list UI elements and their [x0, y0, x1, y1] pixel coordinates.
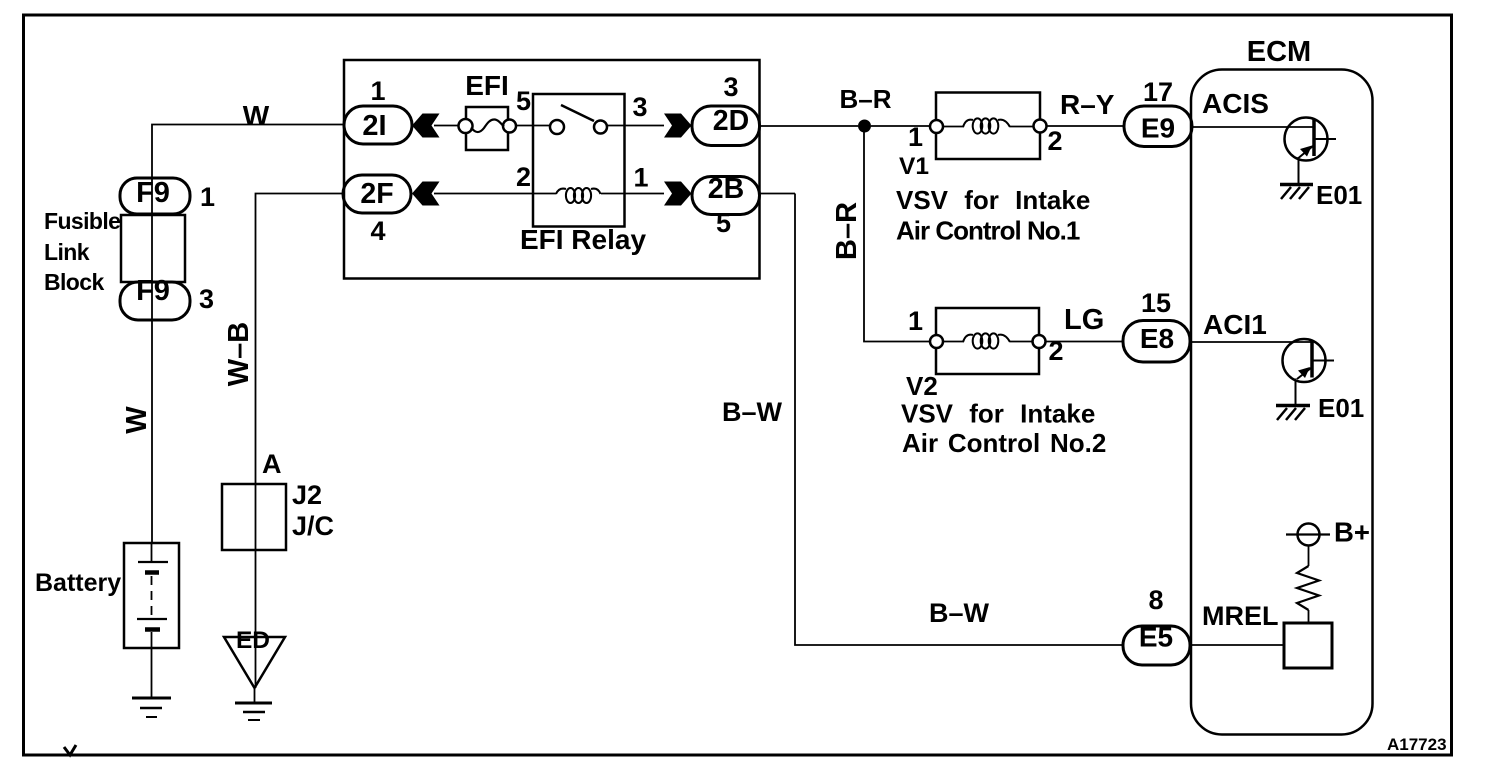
label VSV for Intake Air Control No.1 — [896, 185, 1090, 246]
svg-text:Battery: Battery — [35, 569, 121, 597]
ECM box — [1191, 70, 1373, 735]
resistor (MREL pull-up) — [1297, 566, 1319, 610]
wire 2D to junction — [760, 125, 859, 127]
wire E9 to transistor base — [1190, 126, 1313, 128]
EFI relay inner box — [533, 94, 625, 227]
svg-text:A17723: A17723 — [1387, 735, 1447, 754]
wire ED to ground — [254, 688, 256, 703]
connector 2F — [343, 175, 411, 213]
label VSV for Intake Air Control No.2 — [901, 399, 1106, 459]
svg-text:3: 3 — [723, 72, 738, 102]
svg-text:E01: E01 — [1318, 393, 1364, 423]
label J2 J/C — [292, 480, 334, 541]
ground point ED (triangle) — [224, 627, 285, 688]
svg-text:W: W — [243, 100, 270, 131]
connector F9 pin 3 — [120, 275, 190, 320]
connector F9 pin 1 — [120, 177, 190, 214]
wire 2F arrow to relay coil — [434, 193, 556, 195]
svg-text:J2: J2 — [292, 480, 322, 510]
fusible link block body — [121, 215, 185, 282]
svg-text:1: 1 — [908, 306, 923, 336]
wire relay contact to 2D — [607, 125, 664, 127]
wire junction to V1 — [871, 125, 930, 127]
svg-text:E9: E9 — [1141, 113, 1175, 144]
ground E01 (Q2) — [1276, 406, 1310, 421]
svg-text:VSV for Intake: VSV for Intake — [896, 185, 1090, 215]
arrow into 2F — [412, 182, 440, 206]
wire B-W vertical and bottom run to E5 — [795, 194, 1123, 646]
svg-text:Air Control No.1: Air Control No.1 — [896, 216, 1080, 246]
wire 2B to B-W vertical — [760, 193, 796, 195]
relay coil — [556, 188, 601, 203]
transistor Q2 (ACI1 driver) — [1283, 339, 1335, 405]
svg-text:1: 1 — [200, 182, 215, 212]
svg-text:W–B: W–B — [223, 322, 255, 386]
svg-text:W: W — [121, 406, 153, 434]
svg-text:E8: E8 — [1140, 323, 1174, 354]
connector 2I — [344, 106, 412, 144]
svg-text:LG: LG — [1064, 304, 1104, 336]
arrow into 2B — [664, 182, 692, 206]
junction connector J2 J/C — [222, 484, 286, 550]
wire W: top horizontal run to 2I and down to fusible link — [152, 125, 344, 544]
transistor Q1 (ACIS driver) — [1285, 118, 1337, 185]
ground (battery) — [132, 698, 171, 717]
wire E5 to MREL box — [1190, 644, 1284, 646]
ground (ED) — [235, 703, 272, 720]
svg-text:ACI1: ACI1 — [1203, 309, 1267, 340]
svg-text:B–W: B–W — [929, 598, 990, 628]
svg-text:ED: ED — [236, 627, 270, 654]
connector E9 — [1124, 106, 1192, 147]
arrow into 2D — [664, 114, 692, 138]
svg-text:2F: 2F — [360, 178, 393, 210]
wire W-B: 2F left to J2 — [256, 194, 345, 485]
svg-text:F9: F9 — [136, 177, 170, 209]
svg-text:Air Control No.2: Air Control No.2 — [902, 428, 1106, 458]
svg-text:J/C: J/C — [292, 511, 334, 541]
svg-text:B–R: B–R — [839, 84, 891, 114]
svg-text:2: 2 — [1047, 126, 1062, 156]
svg-text:3: 3 — [199, 284, 214, 314]
svg-text:3: 3 — [632, 92, 647, 122]
svg-text:4: 4 — [370, 216, 385, 246]
battery — [124, 543, 179, 648]
scan artifact mark on bottom border — [64, 745, 76, 755]
wire resistor to MREL box — [1308, 610, 1310, 623]
MREL driver box — [1284, 623, 1332, 668]
wire battery to ground — [151, 648, 153, 698]
EFI relay outer box — [344, 60, 760, 279]
svg-text:Fusible: Fusible — [44, 208, 120, 234]
svg-text:2B: 2B — [708, 173, 744, 205]
svg-text:Block: Block — [44, 269, 104, 295]
VSV V2 — [930, 308, 1046, 374]
svg-text:E5: E5 — [1139, 622, 1173, 653]
wire B-R vertical to V2 — [864, 132, 930, 342]
svg-text:B–W: B–W — [722, 397, 783, 427]
connector 2B — [692, 173, 760, 215]
wire arrow to EFI fuse — [434, 125, 459, 127]
svg-text:2: 2 — [516, 162, 531, 192]
relay switch contact — [550, 105, 607, 134]
fuse EFI — [459, 107, 517, 150]
svg-text:V1: V1 — [899, 153, 929, 180]
svg-text:1: 1 — [633, 163, 648, 193]
VSV V1 — [930, 93, 1047, 160]
svg-text:2: 2 — [1048, 336, 1063, 366]
svg-text:F9: F9 — [136, 275, 170, 307]
svg-text:EFI Relay: EFI Relay — [520, 224, 646, 255]
wire fuse to relay contact — [516, 125, 550, 127]
svg-text:A: A — [262, 449, 282, 479]
wire V1 to E9 — [1047, 125, 1125, 127]
svg-text:Link: Link — [44, 239, 90, 265]
power symbol B+ — [1286, 524, 1330, 546]
wire B+ to resistor — [1308, 546, 1310, 567]
svg-text:8: 8 — [1148, 585, 1163, 615]
svg-text:15: 15 — [1141, 288, 1171, 318]
connector 2D — [692, 105, 760, 146]
svg-text:ACIS: ACIS — [1202, 88, 1269, 119]
wire E8 to transistor base — [1190, 341, 1311, 343]
svg-text:2I: 2I — [362, 110, 386, 142]
label Fusible Link Block — [44, 208, 120, 295]
junction node B-R — [858, 120, 871, 133]
wire J2 to ED — [255, 484, 257, 688]
svg-text:2D: 2D — [713, 105, 749, 137]
svg-text:E01: E01 — [1316, 180, 1362, 210]
svg-text:5: 5 — [516, 86, 531, 116]
connector E5 — [1123, 622, 1190, 666]
wire V2 to E8 — [1046, 341, 1124, 343]
svg-text:1: 1 — [908, 122, 923, 152]
svg-text:B+: B+ — [1334, 517, 1370, 548]
svg-text:V2: V2 — [906, 371, 938, 401]
svg-text:MREL: MREL — [1202, 601, 1279, 631]
svg-text:VSV for Intake: VSV for Intake — [901, 399, 1095, 429]
svg-text:5: 5 — [716, 208, 731, 238]
svg-text:EFI: EFI — [465, 70, 509, 101]
svg-text:ECM: ECM — [1247, 36, 1311, 68]
wire relay coil to 2B — [601, 193, 664, 195]
ground E01 (Q1) — [1280, 185, 1313, 200]
arrow into 2I — [412, 114, 440, 138]
svg-text:1: 1 — [370, 76, 385, 106]
connector E8 — [1123, 321, 1190, 363]
svg-text:B–R: B–R — [831, 202, 863, 260]
svg-text:17: 17 — [1143, 77, 1173, 107]
svg-text:R–Y: R–Y — [1060, 89, 1115, 120]
